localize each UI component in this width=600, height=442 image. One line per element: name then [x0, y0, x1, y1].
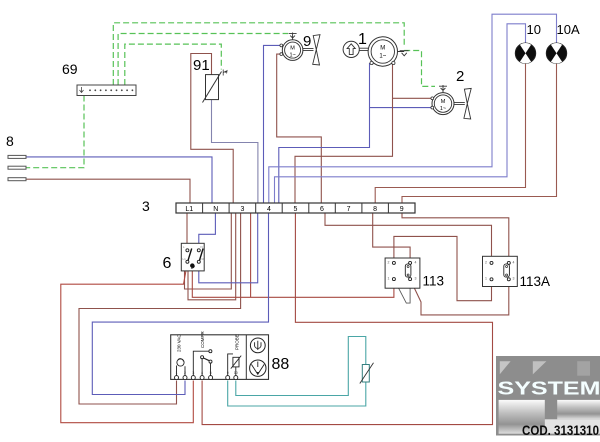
svg-text:4: 4 [513, 261, 515, 265]
wire green from connector 69 to terminal 8 [26, 96, 84, 168]
sensor 91 [203, 72, 222, 103]
svg-text:N1: N1 [201, 257, 205, 261]
wire red switch 6 diagonal to board 88 terminal 3 [61, 262, 194, 423]
wire blue motor 1 to strip 4 [279, 63, 370, 203]
fan motor 2 [454, 88, 471, 119]
wire teal board 88 terminal 10 to probe top [236, 337, 366, 396]
svg-text:2: 2 [388, 261, 390, 265]
indicator circles board 88 [250, 338, 266, 376]
svg-text:COD. 3131310: COD. 3131310 [522, 423, 599, 438]
svg-text:M: M [380, 46, 385, 52]
wire red node strip 3 riser [250, 213, 252, 297]
svg-text:88: 88 [272, 356, 290, 373]
wire brown motor 9 to strip 6 [277, 54, 322, 203]
svg-text:L1: L1 [183, 257, 187, 261]
wire brown strip 8 to lamp 10 return [375, 63, 525, 203]
probe remote teal [360, 363, 374, 384]
wire brown relay 113 terminal 3 to relay 113A terminal 3 [410, 279, 509, 315]
svg-text:3: 3 [240, 206, 244, 213]
wire brown strip 3 to switch 6 pin a [185, 213, 232, 289]
wire brown strip 9 to relay 113A terminal 4 [402, 213, 509, 263]
wire brown strip L1 to switch 6 [186, 213, 188, 250]
wire green ground bus C to sensor 91 [125, 44, 222, 85]
svg-text:9: 9 [227, 371, 229, 375]
svg-text:1~: 1~ [440, 106, 446, 112]
svg-text:1: 1 [485, 277, 487, 281]
wire brown strip 6 to relay 113A terminal 2 [325, 213, 492, 263]
lamp 10 [515, 43, 535, 63]
svg-text:N: N [213, 206, 218, 213]
svg-text:2: 2 [485, 261, 487, 265]
wire blue terminal 8 to strip N [26, 157, 212, 203]
svg-text:1~: 1~ [289, 52, 295, 58]
svg-text:M: M [290, 45, 295, 51]
wire blue motor 9 to strip 4 [264, 45, 282, 203]
svg-text:L1: L1 [185, 206, 193, 213]
svg-text:113A: 113A [520, 274, 551, 289]
svg-text:10A: 10A [557, 22, 580, 37]
lamp 10A [546, 43, 566, 63]
wire brown strip 3 to switch 6 pin b [188, 213, 236, 300]
wire blue strip 4 to lamp 10A [269, 14, 557, 203]
wire brown motor 1 to strip 5 [295, 63, 393, 203]
svg-text:5: 5 [210, 371, 212, 375]
svg-text:N: N [201, 245, 203, 249]
wire brown strip 9 to lamp 10A return [402, 63, 557, 203]
svg-text:2: 2 [456, 68, 464, 85]
wire brown relay 113 terminal 2 to relay 113A terminal 1 [394, 236, 492, 300]
svg-text:113: 113 [423, 274, 445, 289]
wire brown sensor 91 left to strip 3 [191, 54, 233, 204]
svg-text:3: 3 [192, 371, 194, 375]
svg-text:8: 8 [373, 206, 377, 213]
relay 113 [385, 258, 420, 288]
svg-text:4: 4 [201, 371, 203, 375]
logo SYSTEM 4 [496, 356, 600, 436]
svg-text:10: 10 [234, 371, 238, 375]
motor 9 [280, 40, 303, 61]
wire blue strip 4 to board 88 terminal 2 [92, 213, 268, 395]
wire green ground bus B to motor 9 [118, 34, 288, 86]
wire brown relay 113 jumper 1-3 [394, 279, 410, 303]
svg-text:1: 1 [176, 371, 178, 375]
probe symbol board 88 [228, 354, 242, 376]
wire blue branch motor 1 to motor 2 lower [370, 107, 432, 109]
svg-text:9: 9 [303, 33, 311, 50]
ground motor 1 [398, 51, 409, 56]
wire blue switch 6 to strip 4 below [199, 213, 258, 283]
wire red switch 6 pole to relay 113 terminal 1 [192, 271, 394, 297]
svg-text:5: 5 [294, 206, 298, 213]
svg-text:91: 91 [193, 57, 210, 74]
svg-text:3: 3 [415, 277, 417, 281]
ground mark sensor 91 [223, 70, 227, 76]
terminal strip 3 [176, 203, 415, 213]
svg-text:4: 4 [267, 206, 271, 213]
relay 113A [483, 256, 518, 286]
svg-text:7: 7 [347, 206, 351, 213]
svg-text:230 VAC: 230 VAC [177, 334, 182, 352]
svg-text:9: 9 [400, 206, 404, 213]
svg-text:COMPR: COMPR [200, 331, 205, 349]
svg-text:69: 69 [62, 61, 78, 77]
svg-text:1: 1 [388, 277, 390, 281]
svg-text:3: 3 [513, 277, 515, 281]
svg-text:M: M [441, 99, 446, 105]
wire green ground bus A to motor 1 [113, 23, 404, 85]
terminal block 8 [8, 155, 26, 180]
wire blue strip 4 to lamp 10 [275, 24, 526, 203]
ground motor 2 [439, 85, 447, 93]
svg-text:SYSTEM: SYSTEM [498, 379, 600, 399]
motor 2 [431, 93, 454, 115]
wire red strip 5 loop to board 88 terminal 4 [202, 213, 492, 425]
wire green ground branch motor1 to motor2 [404, 51, 435, 87]
wire brown strip 8 to relay 113 terminal 4 [373, 213, 410, 263]
svg-text:6: 6 [163, 255, 172, 272]
svg-text:6: 6 [320, 206, 324, 213]
connector 69 [77, 85, 136, 96]
svg-text:3: 3 [142, 198, 150, 214]
wire blue strip N to switch 6 [199, 213, 216, 250]
relay contact board 88 [193, 350, 212, 376]
board 88 terminals [175, 376, 238, 380]
svg-text:1: 1 [358, 31, 367, 48]
ground motor 9 [289, 33, 297, 40]
svg-text:4: 4 [415, 261, 417, 265]
motor 1 [343, 37, 397, 66]
transformer symbol board 88 [177, 359, 186, 376]
wire teal board 88 terminal 9 to probe bottom [228, 381, 366, 407]
fan motor 9 [303, 35, 320, 65]
wire brown branch motor 1 to motor 2 upper [393, 97, 432, 99]
switch 6 [181, 243, 204, 271]
svg-text:10: 10 [527, 22, 541, 37]
svg-text:1~: 1~ [379, 54, 386, 60]
wire brown strip 3 to board 88 terminal 1 [79, 213, 241, 404]
board 88 [171, 331, 269, 380]
svg-text:8: 8 [6, 133, 14, 149]
wire brown terminal 8 to strip L1 [26, 179, 190, 203]
svg-text:PROBE: PROBE [234, 334, 239, 350]
svg-text:2: 2 [184, 371, 186, 375]
wire slate sensor 91 right to strip 4 [212, 100, 258, 203]
